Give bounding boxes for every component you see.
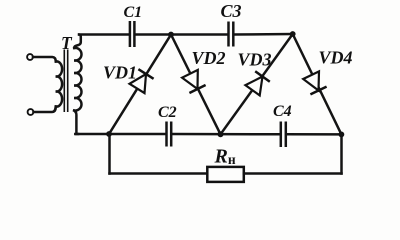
wire top rail C3 to node B	[234, 33, 292, 36]
wire bottom rail left segment	[110, 172, 208, 175]
wire mid rail secondary to C2	[75, 133, 165, 136]
capacitor C2 right plate	[170, 122, 173, 147]
diode VD1 cathode bar	[138, 69, 153, 79]
capacitor C3 right plate	[232, 22, 235, 47]
diode VD2 cathode bar	[189, 85, 205, 93]
diode VD1 wire	[109, 35, 171, 135]
diode VD4 cathode bar	[310, 87, 326, 95]
diode VD2 triangle	[182, 70, 198, 89]
transformer T core line left	[63, 50, 65, 113]
node B junction dot (VD3/VD4 apex)	[290, 31, 296, 37]
wire top rail C1 to node A	[136, 33, 172, 36]
wire right riser to node E	[340, 134, 343, 173]
wire bottom rail right segment	[244, 172, 342, 175]
diode VD4 triangle	[303, 71, 319, 90]
diode VD2 wire	[171, 35, 221, 135]
wire top rail left segment (secondary to C1)	[79, 33, 129, 36]
capacitor C1 left plate	[129, 21, 132, 47]
capacitor C1 right plate	[133, 21, 136, 47]
node D junction dot (center, VD2/VD3)	[218, 131, 224, 137]
svg-text:T: T	[61, 33, 73, 53]
wire primary bottom lead	[34, 107, 56, 113]
diode VD4 wire	[293, 34, 342, 134]
wire top rail node A to C3	[171, 33, 227, 36]
wire primary top lead	[33, 57, 56, 62]
node A junction dot (VD1/VD2 apex)	[168, 32, 174, 38]
diode VD3 triangle	[245, 77, 262, 96]
transformer T core line right	[67, 50, 69, 113]
svg-text:C3: C3	[221, 1, 242, 21]
resistor Rn box	[207, 167, 244, 182]
transformer T secondary winding	[74, 48, 81, 111]
node C junction dot (left, VD1 anode)	[106, 131, 112, 137]
diode VD3 wire	[221, 34, 293, 134]
wire left drop to bottom rail	[108, 134, 111, 174]
svg-text:VD2: VD2	[192, 48, 226, 68]
wire secondary top lead	[74, 35, 81, 49]
svg-text:VD4: VD4	[319, 48, 353, 68]
capacitor C4 right plate	[285, 122, 288, 148]
diode VD1 triangle	[130, 74, 147, 93]
svg-text:VD3: VD3	[238, 49, 272, 69]
capacitor C2 left plate	[165, 122, 168, 147]
svg-text:C2: C2	[158, 104, 177, 121]
capacitor C3 left plate	[227, 22, 230, 47]
wire secondary bottom lead	[74, 111, 78, 135]
svg-text:C1: C1	[124, 4, 143, 21]
transformer T primary winding	[56, 61, 62, 106]
wire mid rail C2 to C4	[172, 133, 279, 136]
svg-text:C4: C4	[273, 103, 292, 120]
wire mid rail C4 to node E	[287, 133, 342, 136]
transformer T primary terminal top	[27, 54, 33, 60]
diode VD3 cathode bar	[255, 71, 270, 82]
capacitor C4 left plate	[280, 122, 283, 148]
node E junction dot (right, VD4 cathode)	[339, 132, 345, 138]
svg-text:VD1: VD1	[103, 63, 137, 83]
transformer T primary terminal bottom	[28, 109, 34, 115]
